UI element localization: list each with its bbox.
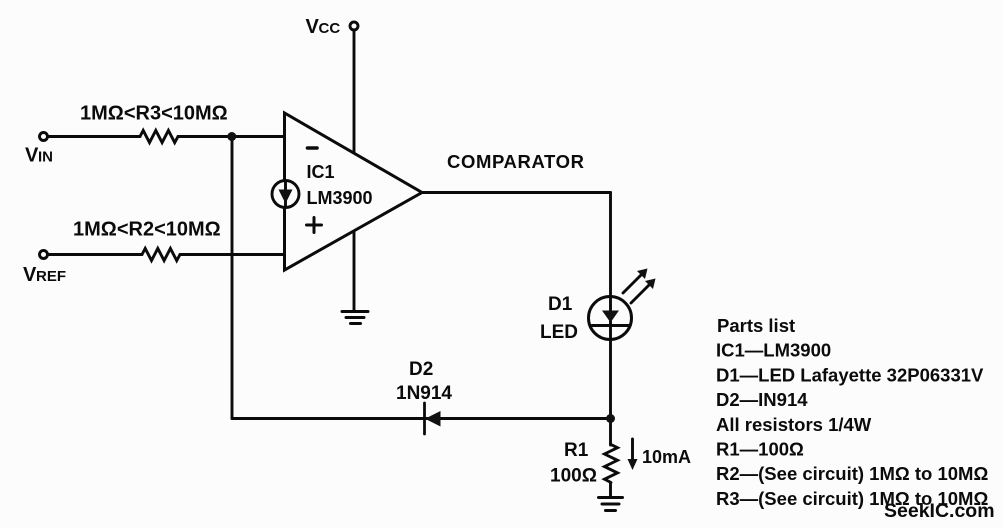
svg-text:D2—IN914: D2—IN914	[716, 389, 808, 410]
svg-text:All resistors 1/4W: All resistors 1/4W	[716, 414, 872, 435]
svg-text:1MΩ<R3<10MΩ: 1MΩ<R3<10MΩ	[80, 103, 228, 125]
svg-text:CC: CC	[319, 20, 341, 37]
svg-text:REF: REF	[36, 268, 66, 285]
svg-text:V: V	[25, 145, 39, 167]
svg-text:IN: IN	[38, 149, 53, 166]
svg-text:D2: D2	[409, 359, 433, 380]
svg-text:1N914: 1N914	[396, 383, 452, 404]
svg-text:V: V	[23, 264, 37, 286]
svg-text:SeekIC.com: SeekIC.com	[884, 500, 995, 522]
svg-text:10mA: 10mA	[642, 447, 691, 467]
svg-text:100Ω: 100Ω	[550, 466, 597, 487]
svg-text:LED: LED	[540, 322, 578, 343]
svg-text:IC1—LM3900: IC1—LM3900	[716, 340, 831, 361]
svg-text:R1: R1	[564, 440, 589, 461]
svg-text:LM3900: LM3900	[307, 188, 373, 208]
svg-text:D1: D1	[548, 294, 573, 315]
svg-text:Parts list: Parts list	[717, 315, 795, 336]
svg-text:R2—(See circuit) 1MΩ to 10MΩ: R2—(See circuit) 1MΩ to 10MΩ	[716, 463, 988, 484]
svg-text:1MΩ<R2<10MΩ: 1MΩ<R2<10MΩ	[73, 219, 221, 241]
svg-text:V: V	[306, 16, 320, 38]
svg-text:D1—LED Lafayette 32P06331V: D1—LED Lafayette 32P06331V	[716, 364, 984, 385]
svg-text:COMPARATOR: COMPARATOR	[447, 151, 585, 172]
svg-text:IC1: IC1	[307, 162, 335, 182]
svg-text:R1—100Ω: R1—100Ω	[716, 439, 804, 460]
